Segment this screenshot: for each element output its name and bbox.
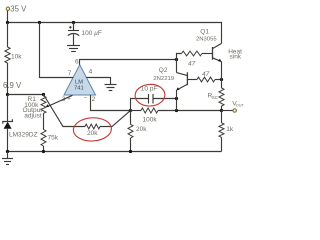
svg-text:20k: 20k <box>87 130 98 137</box>
svg-text:2N2219: 2N2219 <box>153 76 174 82</box>
svg-text:35 V: 35 V <box>10 4 27 13</box>
potentiometer R1 100k Output adjust <box>43 95 45 97</box>
wire pin4 to ground <box>86 78 110 85</box>
svg-text:741: 741 <box>74 85 84 91</box>
svg-text:SC: SC <box>212 95 218 100</box>
junction rail cap <box>72 21 75 24</box>
svg-text:47: 47 <box>202 71 210 78</box>
pot wiper arrow to pin3 <box>47 95 72 106</box>
resistor 1k <box>221 111 223 123</box>
svg-text:100k: 100k <box>143 117 158 124</box>
wire bottom rail <box>8 151 222 153</box>
svg-text:1k: 1k <box>226 126 234 133</box>
wire Q2 base to 47 <box>187 79 197 81</box>
svg-text:Q2: Q2 <box>159 67 168 74</box>
wire 35V terminal to top rail <box>7 11 9 23</box>
svg-text:2: 2 <box>92 96 96 103</box>
svg-text:6.9 V: 6.9 V <box>3 81 22 90</box>
ground cap <box>67 46 80 52</box>
ground main <box>2 152 13 165</box>
wire 6.9V node to diode <box>7 95 9 122</box>
transistor Q1 2N3055 <box>213 43 222 61</box>
resistor R_SC <box>221 80 223 89</box>
svg-text:LM329DZ: LM329DZ <box>9 132 38 139</box>
svg-text:2N3055: 2N3055 <box>196 36 217 42</box>
svg-text:adjust: adjust <box>24 113 42 120</box>
svg-text:20k: 20k <box>136 126 147 133</box>
highlight ellipse 20k <box>73 117 112 142</box>
resistor 100k feedback <box>131 110 142 112</box>
junction rail x39 <box>38 21 41 24</box>
node A junction <box>129 109 132 112</box>
svg-text:7: 7 <box>68 70 72 77</box>
svg-text:6: 6 <box>75 59 79 66</box>
wire pin7 supply from rail <box>40 23 74 78</box>
svg-text:100 µF: 100 µF <box>82 30 102 37</box>
svg-text:sink: sink <box>230 54 242 61</box>
resistor 10k <box>5 47 10 63</box>
transistor Q2 2N2219 <box>176 60 178 73</box>
svg-text:Q1: Q1 <box>200 29 209 36</box>
highlight ellipse 10pF <box>135 84 166 107</box>
wire diagonal 6.9V node to 20k <box>44 95 86 127</box>
resistor 47 current-limit <box>197 77 215 82</box>
svg-text:4: 4 <box>89 69 93 76</box>
terminal Vout <box>222 110 233 112</box>
wire pin2 to node A <box>91 95 131 111</box>
resistor 20k added <box>85 124 100 129</box>
resistor 47 base drive <box>177 54 182 60</box>
svg-text:10k: 10k <box>11 54 22 61</box>
zener diode LM329DZ <box>3 119 38 138</box>
wire 20k to inverting node <box>100 111 131 127</box>
wire top rail <box>8 23 222 44</box>
resistor 75k <box>41 130 46 147</box>
wire pin6 output <box>80 60 177 65</box>
resistor 20k to ground <box>130 111 132 125</box>
svg-text:47: 47 <box>188 60 196 67</box>
svg-text:−: − <box>84 95 88 102</box>
ground pin4 <box>105 85 117 91</box>
op-amp U1 LM741 <box>62 59 96 103</box>
terminal 35V input <box>6 7 9 10</box>
svg-text:OUT: OUT <box>236 104 245 108</box>
capacitor 10pF compensation <box>131 99 149 111</box>
junction top-left <box>6 21 9 24</box>
wire pot to 75k <box>43 113 45 129</box>
wire rail to 10k <box>7 23 9 48</box>
svg-text:75k: 75k <box>48 135 59 142</box>
wire 10k to 6.9V node <box>7 63 9 95</box>
capacitor 100uF <box>73 23 75 31</box>
wire 6.9V to pot <box>8 94 44 96</box>
wire diode to bottom rail <box>7 129 9 152</box>
svg-text:10 pF: 10 pF <box>141 86 159 93</box>
